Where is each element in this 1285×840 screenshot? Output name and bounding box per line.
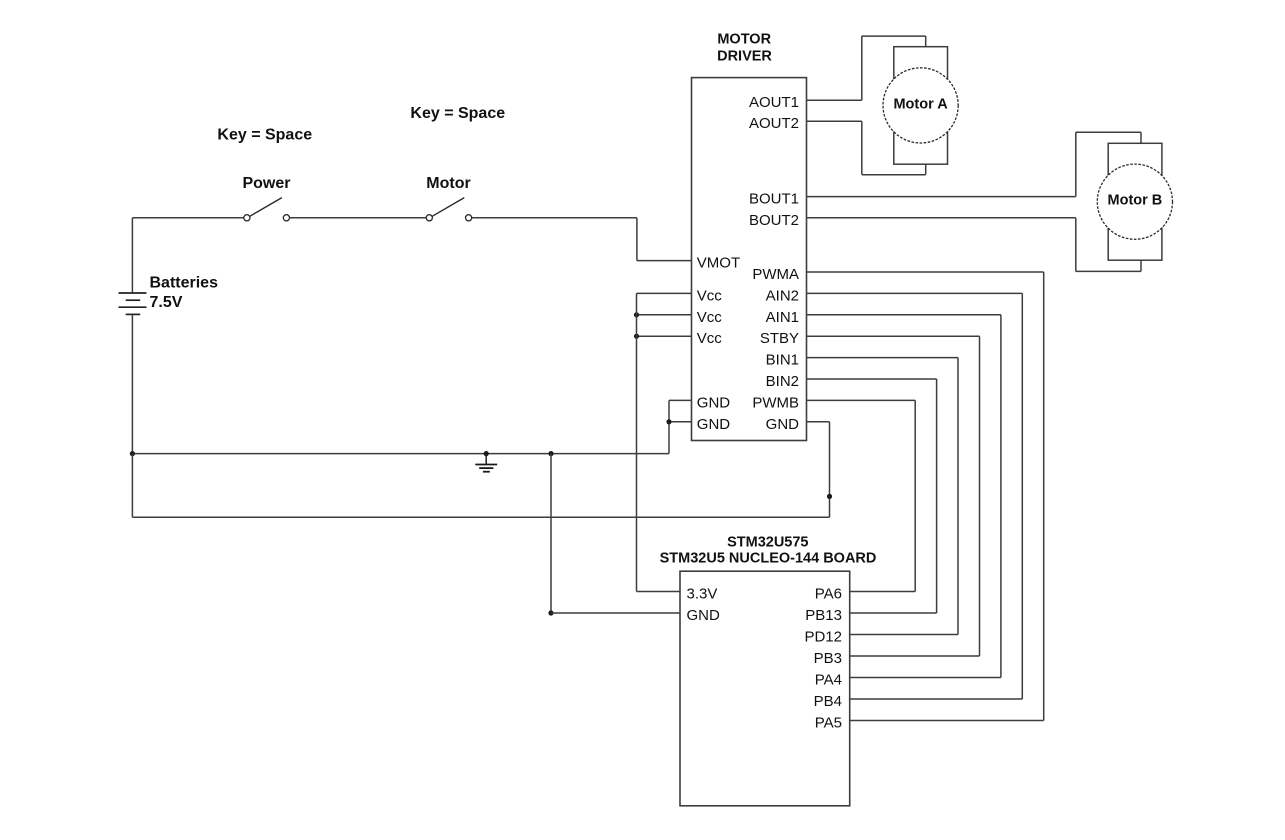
svg-text:PWMA: PWMA [752,266,799,283]
svg-text:GND: GND [766,416,800,433]
svg-text:Batteries: Batteries [150,274,219,291]
wire PWMB out [807,399,916,401]
svg-text:BIN2: BIN2 [766,373,799,390]
svg-text:PWMB: PWMB [752,394,799,411]
wire into PA4 pin [850,677,1001,679]
wire AIN2-PB4 vertical [1021,293,1023,699]
wire motor B loop bottom [1075,218,1077,272]
svg-text:AOUT1: AOUT1 [749,94,799,111]
junction GND left2 [666,419,671,424]
svg-text:AOUT2: AOUT2 [749,115,799,132]
wire STBY out [807,335,980,337]
svg-text:STBY: STBY [760,330,799,347]
svg-text:GND: GND [697,416,731,433]
wire motor B loop top [1075,132,1077,196]
wire AIN1 out [807,314,1001,316]
wire into PD12 pin [850,634,958,636]
battery V1 7.5V [131,218,133,293]
svg-text:AIN1: AIN1 [766,309,799,326]
svg-text:7.5V: 7.5V [150,294,183,311]
wire BIN2 out [807,378,937,380]
wire AOUT2 out [807,120,862,122]
svg-text:PB3: PB3 [814,650,842,667]
wire GND left vertical [668,400,670,453]
wire GND left1 stub [669,399,692,401]
wire into PA5 pin [850,720,1044,722]
svg-text:MOTOR: MOTOR [717,31,771,47]
wire down to STM32 GND [550,454,552,613]
svg-text:AIN2: AIN2 [766,287,799,304]
svg-text:STM32U575: STM32U575 [727,534,808,550]
wire STBY-PB3 vertical [979,336,981,656]
wire BIN2-PB13 vertical [936,379,938,613]
svg-text:PD12: PD12 [804,629,842,646]
wire BIN1-PD12 vertical [957,358,959,635]
wire into PB3 pin [850,655,980,657]
wire bottom return bus [132,516,829,518]
wire battery return vertical [131,454,133,518]
wire BOUT2 out [807,217,1076,219]
switch S2 Motor [426,215,432,221]
wire down to VMOT [636,218,638,261]
svg-text:GND: GND [687,607,721,624]
motor driver U1 box [692,78,807,441]
svg-text:Motor B: Motor B [1108,193,1163,209]
junction Vcc3 [634,334,639,339]
wire into STM32 GND pin [551,612,680,614]
wire Vcc2 stub [637,314,692,316]
motor A body rect [894,47,948,165]
svg-text:PA4: PA4 [815,672,842,689]
svg-text:GND: GND [697,394,731,411]
wire motor A loop bottom [861,121,863,175]
svg-text:3.3V: 3.3V [687,586,718,603]
wire into PB4 pin [850,698,1023,700]
wire AIN2 out [807,292,1023,294]
wire motor A loop top [861,36,863,100]
motor B circle [1097,164,1172,239]
wire S1 to S2 [290,217,427,219]
wire GND left2 stub [669,421,692,423]
svg-text:Power: Power [242,175,290,192]
svg-text:DRIVER: DRIVER [717,49,772,65]
svg-text:Motor: Motor [426,175,470,192]
wire Vcc3 stub [637,335,692,337]
junction ground to STM32 [548,451,553,456]
svg-text:BOUT2: BOUT2 [749,212,799,229]
junction STM32 GND corner [548,610,553,615]
wire PWMA-PA5 vertical [1043,272,1045,721]
STM32 board U2 box [680,571,850,806]
motor B body rect [1108,143,1162,260]
wire Vcc vertical to 3.3V [636,293,638,591]
svg-text:Vcc: Vcc [697,309,723,326]
svg-text:Motor A: Motor A [893,96,948,112]
wire PWMB-PA6 vertical [914,400,916,591]
wire GND right stub [807,421,830,423]
wire BIN1 out [807,357,959,359]
wire into PB13 pin [850,612,937,614]
wire AIN1-PA4 vertical [1000,315,1002,678]
wire Vcc1 stub [637,292,692,294]
wire GND right drop [829,422,831,518]
junction battery-ground [130,451,135,456]
wire into 3.3V pin [637,591,681,593]
svg-text:STM32U5 NUCLEO-144 BOARD: STM32U5 NUCLEO-144 BOARD [660,551,877,567]
wire S2 to VMOT corner [472,217,637,219]
svg-text:PB4: PB4 [814,693,842,710]
svg-text:Vcc: Vcc [697,330,723,347]
wire battery to switch S1 [132,217,243,219]
wire into VMOT pin [637,260,692,262]
wire PWMA out [807,271,1044,273]
motor A circle [883,68,958,143]
svg-text:PB13: PB13 [805,607,842,624]
svg-text:Vcc: Vcc [697,287,723,304]
wire into PA6 pin [850,591,916,593]
svg-text:BOUT1: BOUT1 [749,191,799,208]
switch S1 Power [244,215,250,221]
ground symbol [484,451,489,456]
wire AOUT1 out [807,99,862,101]
junction Vcc2 [634,312,639,317]
svg-text:PA6: PA6 [815,586,842,603]
svg-text:PA5: PA5 [815,715,842,732]
junction GND drop [827,494,832,499]
svg-text:Key = Space: Key = Space [410,105,505,122]
svg-text:BIN1: BIN1 [766,352,799,369]
svg-text:VMOT: VMOT [697,255,740,272]
wire ground bus [132,453,669,455]
wire BOUT1 out [807,196,1076,198]
svg-text:Key = Space: Key = Space [217,126,312,143]
